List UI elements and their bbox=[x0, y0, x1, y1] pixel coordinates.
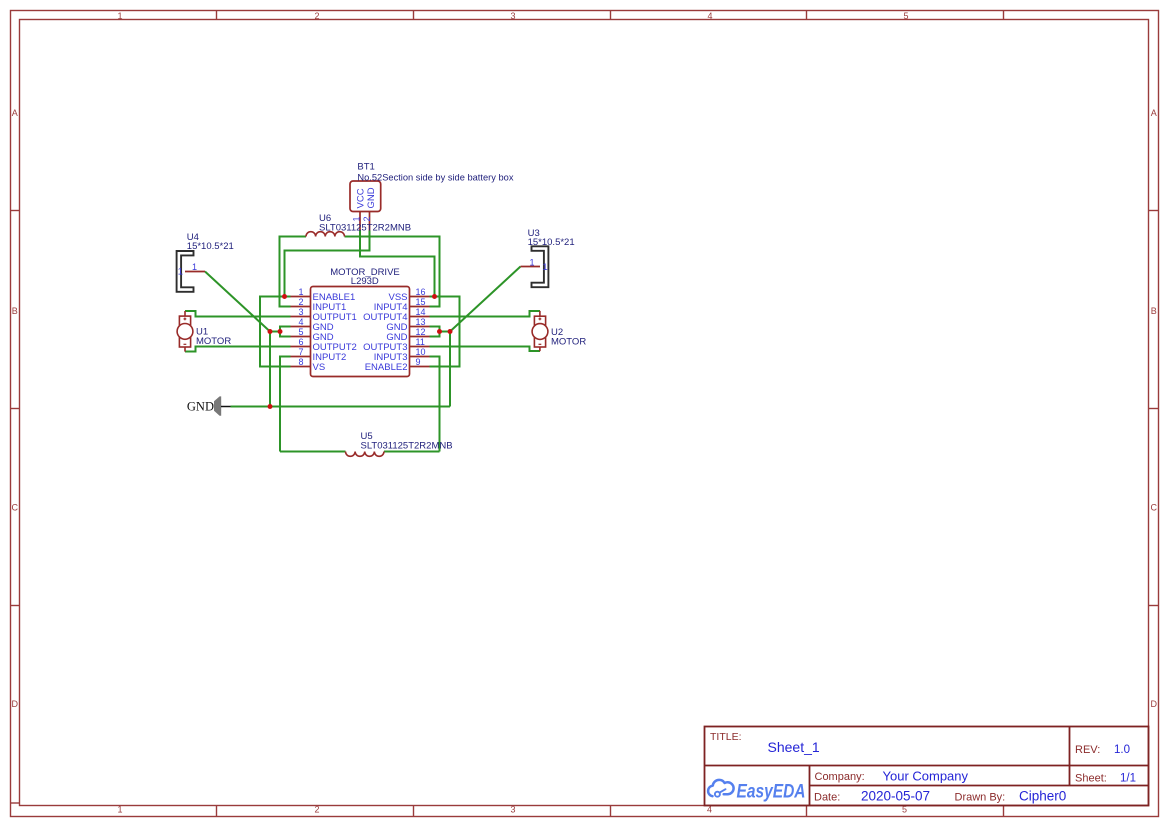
svg-text:1: 1 bbox=[298, 287, 303, 297]
svg-text:Sheet_1: Sheet_1 bbox=[768, 739, 820, 755]
svg-text:B: B bbox=[12, 306, 18, 316]
svg-text:1: 1 bbox=[117, 805, 122, 815]
svg-text:1.0: 1.0 bbox=[1114, 744, 1130, 756]
svg-text:EasyEDA: EasyEDA bbox=[737, 781, 806, 803]
svg-text:MOTOR: MOTOR bbox=[196, 336, 231, 347]
svg-text:4: 4 bbox=[298, 317, 303, 327]
svg-text:14: 14 bbox=[416, 307, 426, 317]
svg-text:L293D: L293D bbox=[351, 276, 379, 287]
svg-text:MOTOR: MOTOR bbox=[551, 336, 586, 347]
svg-text:2: 2 bbox=[314, 11, 319, 21]
svg-text:VCC: VCC bbox=[356, 188, 367, 208]
svg-text:Date:: Date: bbox=[814, 792, 840, 804]
svg-text:A: A bbox=[12, 108, 18, 118]
svg-text:3: 3 bbox=[298, 307, 303, 317]
svg-text:No.52Section side by side batt: No.52Section side by side battery box bbox=[357, 172, 513, 182]
svg-text:1: 1 bbox=[351, 216, 361, 221]
svg-text:GND: GND bbox=[187, 400, 214, 414]
svg-text:7: 7 bbox=[298, 347, 303, 357]
svg-text:2: 2 bbox=[362, 216, 372, 221]
svg-text:15*10.5*21: 15*10.5*21 bbox=[187, 241, 234, 252]
svg-text:15*10.5*21: 15*10.5*21 bbox=[528, 237, 575, 248]
svg-text:3: 3 bbox=[510, 11, 515, 21]
svg-text:9: 9 bbox=[416, 357, 421, 367]
svg-text:Company:: Company: bbox=[815, 771, 865, 783]
svg-text:1: 1 bbox=[529, 257, 534, 267]
svg-text:Your Company: Your Company bbox=[883, 769, 969, 784]
svg-text:BT1: BT1 bbox=[357, 162, 374, 173]
svg-text:C: C bbox=[12, 503, 19, 513]
svg-text:2020-05-07: 2020-05-07 bbox=[861, 789, 930, 804]
svg-text:15: 15 bbox=[416, 297, 426, 307]
svg-text:2: 2 bbox=[314, 805, 319, 815]
svg-text:12: 12 bbox=[416, 327, 426, 337]
svg-text:5: 5 bbox=[903, 11, 908, 21]
svg-text:1: 1 bbox=[117, 11, 122, 21]
svg-text:Sheet:: Sheet: bbox=[1075, 773, 1107, 785]
svg-text:SLT031125T2R2MNB: SLT031125T2R2MNB bbox=[361, 440, 453, 451]
svg-text:ENABLE2: ENABLE2 bbox=[365, 362, 408, 373]
svg-text:5: 5 bbox=[298, 327, 303, 337]
svg-text:1: 1 bbox=[192, 262, 197, 272]
svg-text:2: 2 bbox=[298, 297, 303, 307]
svg-text:3: 3 bbox=[510, 805, 515, 815]
svg-text:16: 16 bbox=[416, 287, 426, 297]
svg-text:10: 10 bbox=[416, 347, 426, 357]
svg-text:1: 1 bbox=[542, 262, 547, 273]
svg-text:B: B bbox=[1151, 306, 1157, 316]
svg-text:TITLE:: TITLE: bbox=[710, 731, 742, 743]
svg-text:6: 6 bbox=[298, 337, 303, 347]
svg-text:REV:: REV: bbox=[1075, 744, 1100, 756]
svg-text:13: 13 bbox=[416, 317, 426, 327]
svg-text:1/1: 1/1 bbox=[1120, 773, 1136, 785]
svg-text:GND: GND bbox=[366, 187, 377, 208]
svg-text:1: 1 bbox=[178, 266, 183, 277]
svg-text:8: 8 bbox=[298, 357, 303, 367]
svg-text:D: D bbox=[1151, 699, 1158, 709]
svg-text:Drawn By:: Drawn By: bbox=[955, 792, 1006, 804]
svg-text:D: D bbox=[12, 699, 19, 709]
svg-text:SLT031125T2R2MNB: SLT031125T2R2MNB bbox=[319, 223, 411, 234]
svg-text:Cipher0: Cipher0 bbox=[1019, 789, 1066, 804]
svg-text:VS: VS bbox=[313, 362, 326, 373]
svg-text:11: 11 bbox=[416, 337, 425, 347]
svg-text:C: C bbox=[1151, 503, 1158, 513]
svg-text:4: 4 bbox=[707, 11, 712, 21]
svg-text:A: A bbox=[1151, 108, 1157, 118]
